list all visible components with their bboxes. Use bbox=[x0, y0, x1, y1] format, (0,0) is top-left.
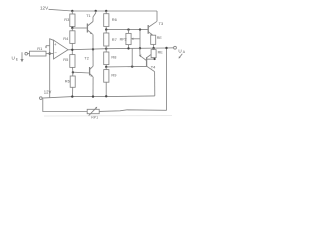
node dot B bbox=[105, 28, 107, 30]
wire riser output bus to node C bbox=[131, 48, 133, 66]
node dot bus-wiper column bbox=[139, 47, 141, 49]
transistor T3 bbox=[148, 11, 163, 36]
svg-text:+: + bbox=[54, 42, 57, 47]
wire feedback vertical from inverting node down to common line bbox=[50, 39, 54, 98]
svg-text:−: − bbox=[54, 51, 57, 56]
resistor R8 bbox=[104, 30, 117, 49]
wire T4 bar to RE2 bottom bbox=[147, 58, 155, 60]
svg-text:R3: R3 bbox=[64, 17, 69, 22]
wire bottom line right of RP1 bbox=[99, 110, 166, 112]
terminal -12V bbox=[40, 90, 52, 100]
node dot output-RE junction bbox=[152, 47, 154, 49]
svg-text:R4: R4 bbox=[63, 36, 69, 41]
node dot rail-R3 bbox=[71, 10, 73, 12]
node dot rail-T1 collector bbox=[95, 10, 97, 12]
resistor R4 bbox=[63, 28, 75, 50]
node dot C-bus riser bbox=[131, 65, 133, 67]
transistor T4 second emitter diag bbox=[147, 54, 152, 57]
op-amp U1 bbox=[54, 40, 69, 59]
node dot rail-R7col bbox=[105, 10, 107, 12]
faint scan artifact line bbox=[44, 115, 172, 117]
wire -12V terminal drop to bottom line bbox=[43, 99, 87, 112]
resistor R3 bbox=[64, 11, 75, 28]
svg-text:R6: R6 bbox=[112, 17, 117, 22]
node dot common-T2 emitter bbox=[92, 95, 94, 97]
svg-text:E: E bbox=[16, 57, 19, 61]
svg-text:T4: T4 bbox=[151, 64, 156, 69]
node dot bus-T1T2 bbox=[92, 48, 94, 50]
resistor R10 bbox=[104, 67, 117, 96]
svg-text:R9: R9 bbox=[111, 73, 116, 78]
resistor R7 bbox=[104, 11, 117, 30]
wire common/ground line y98 bbox=[42, 96, 155, 98]
resistor R1 bbox=[28, 46, 54, 56]
svg-text:R5: R5 bbox=[63, 57, 68, 62]
wire R5/R6 node to T2 base bbox=[73, 71, 90, 74]
wire node A to T1 base bbox=[72, 27, 87, 29]
wire node C to T4 base bbox=[106, 65, 146, 68]
transistor T2 bbox=[84, 49, 93, 96]
node dot bus-RP2 bbox=[127, 47, 129, 49]
input terminal bbox=[12, 52, 28, 62]
svg-text:U: U bbox=[12, 56, 15, 61]
node dot output-riser bbox=[165, 47, 167, 49]
node dot A bbox=[71, 27, 73, 29]
node dot bus-R4R5 bbox=[71, 49, 73, 51]
svg-text:12V: 12V bbox=[44, 90, 52, 95]
output terminal bbox=[174, 46, 186, 58]
resistor R9 bbox=[104, 49, 117, 67]
transistor T4 emitter from output bus bbox=[139, 48, 141, 55]
transistor T1 bbox=[86, 11, 96, 49]
node dot B-wiper column bbox=[139, 28, 141, 30]
svg-text:12V: 12V bbox=[40, 5, 49, 10]
wire riser bottom line to output bbox=[166, 48, 168, 111]
node dot bus-R8R9 bbox=[105, 48, 107, 50]
resistor R5 bbox=[63, 50, 75, 73]
svg-text:T3: T3 bbox=[159, 21, 164, 26]
transistor T4 collector bbox=[147, 66, 155, 71]
resistor R6 left column bottom bbox=[65, 72, 75, 96]
svg-text:RP2: RP2 bbox=[120, 37, 127, 41]
svg-text:RE: RE bbox=[158, 51, 164, 55]
node dot inverting input bbox=[49, 52, 51, 54]
node dot R5-R6 bbox=[72, 71, 74, 73]
svg-text:U: U bbox=[178, 48, 181, 53]
wire op-amp noninv stub with ground arrow bbox=[45, 46, 50, 49]
node dot RE2 bottom bbox=[154, 58, 156, 60]
wire mid output bus bbox=[68, 48, 174, 50]
wire node B to T3 base bbox=[106, 29, 148, 31]
wire +12V rail bbox=[49, 9, 158, 11]
svg-text:R7: R7 bbox=[112, 37, 117, 42]
resistor RE1 bbox=[151, 35, 163, 48]
node dot common-R6 bbox=[71, 95, 73, 97]
svg-text:T2: T2 bbox=[84, 57, 88, 61]
node dot common-R10 bbox=[105, 95, 107, 97]
resistor RE2 bbox=[151, 48, 163, 59]
transistor T4 base bar bbox=[146, 57, 148, 67]
svg-text:R8: R8 bbox=[111, 55, 116, 60]
potentiometer RP2 bbox=[120, 30, 140, 49]
svg-text:R6: R6 bbox=[65, 79, 70, 84]
svg-text:T1: T1 bbox=[86, 14, 90, 18]
svg-text:R1: R1 bbox=[37, 46, 42, 51]
potentiometer RP1 bbox=[87, 107, 99, 120]
svg-text:A: A bbox=[183, 50, 186, 54]
svg-text:RE: RE bbox=[157, 36, 163, 40]
svg-text:RP1: RP1 bbox=[91, 116, 98, 120]
node dot B-RP2 bbox=[127, 28, 129, 30]
node dot C bbox=[105, 66, 107, 68]
